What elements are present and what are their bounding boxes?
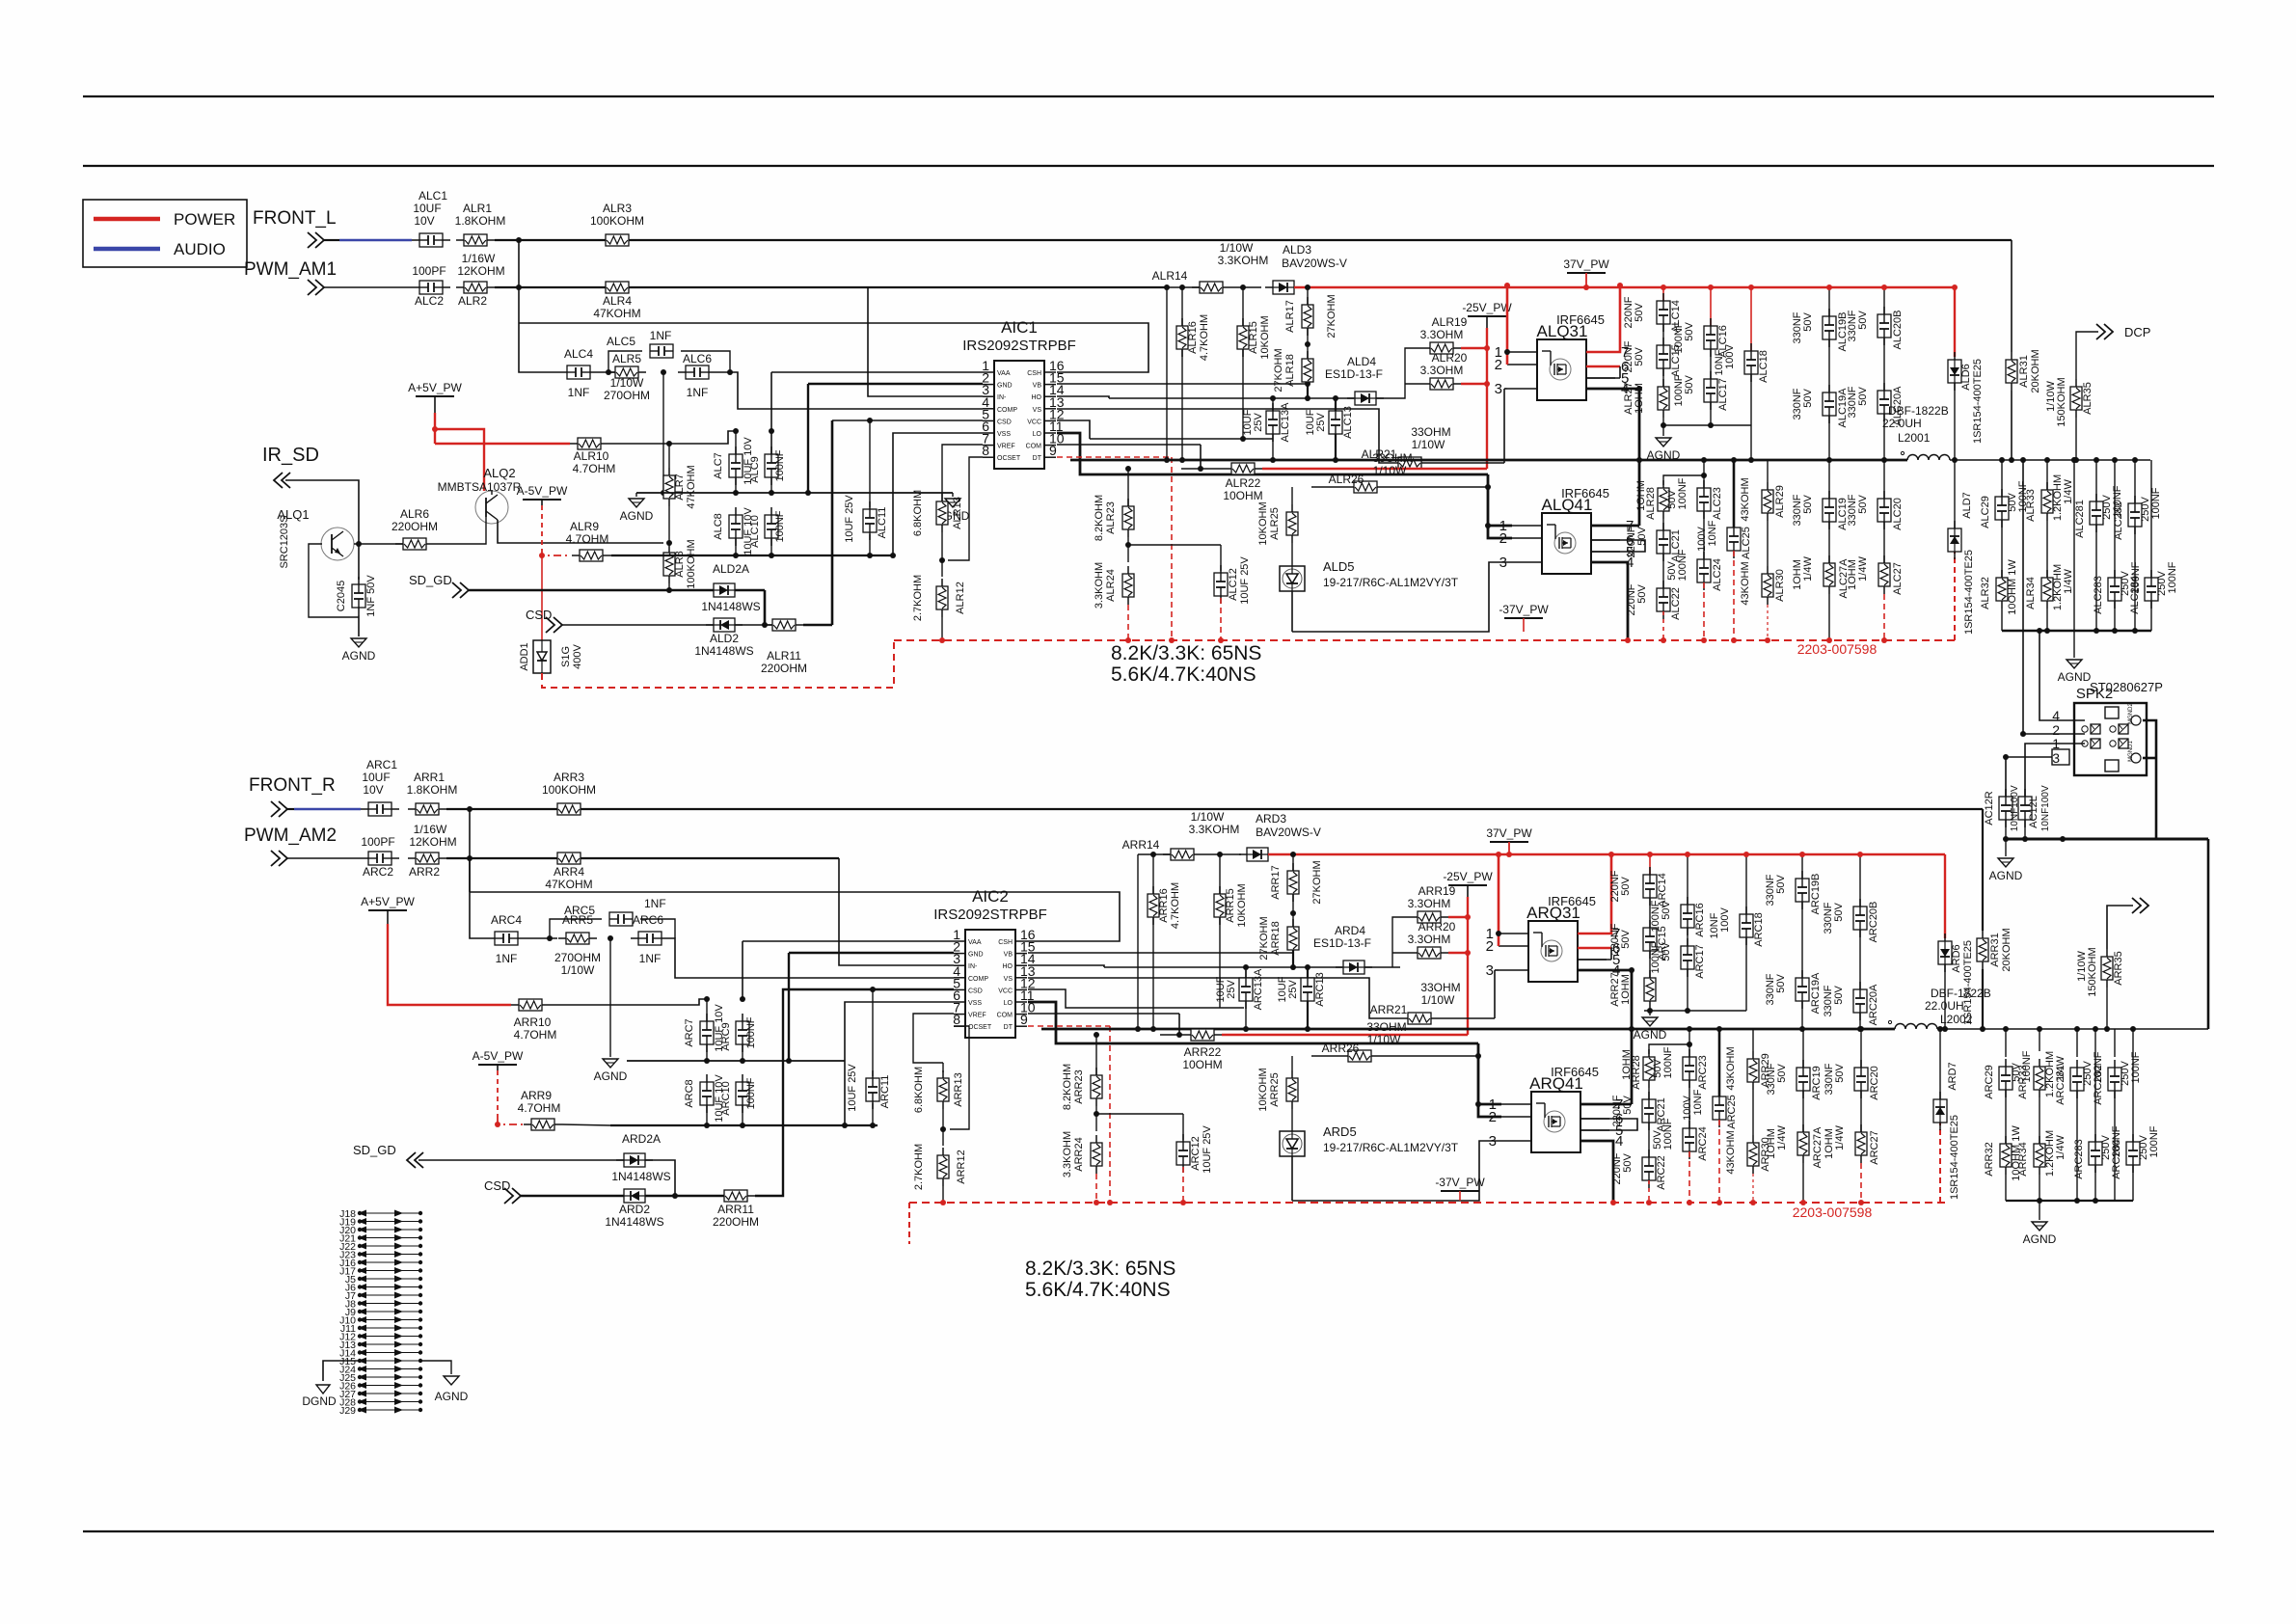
svg-text:OCSET: OCSET (968, 1024, 992, 1031)
svg-text:100KOHM: 100KOHM (590, 214, 644, 228)
cap column ARC16/ARC17 (1687, 854, 1688, 905)
wire AGND drop (662, 372, 664, 493)
svg-text:ALC27: ALC27 (1892, 562, 1904, 595)
svg-text:IN-: IN- (968, 963, 978, 970)
resistor ALR7 (663, 468, 675, 506)
svg-text:ALR19: ALR19 (1432, 315, 1468, 329)
pin J18 (339, 1208, 422, 1220)
svg-text:50V: 50V (1666, 561, 1678, 581)
svg-text:1/10W: 1/10W (561, 963, 595, 977)
svg-text:ALC23: ALC23 (1712, 487, 1723, 520)
svg-text:ALQ31: ALQ31 (1537, 322, 1588, 340)
svg-text:HO: HO (1003, 963, 1013, 970)
svg-text:33OHM: 33OHM (1420, 981, 1460, 994)
resistor ARR3 (550, 803, 588, 815)
resistor ARR2 (408, 853, 446, 864)
wire OCSET pin8 (950, 1026, 969, 1129)
svg-text:ALR30: ALR30 (1774, 569, 1786, 602)
svg-text:3: 3 (1495, 381, 1502, 397)
svg-text:2203-007598: 2203-007598 (1793, 1204, 1873, 1220)
wire mid bus (627, 1060, 845, 1062)
second border rule (83, 165, 2214, 167)
svg-text:ALC2: ALC2 (415, 294, 444, 308)
svg-text:AGND: AGND (594, 1069, 628, 1083)
svg-text:10OHM: 10OHM (1182, 1058, 1222, 1071)
svg-text:ARC19: ARC19 (1811, 1066, 1823, 1099)
resistor ARR28 (1643, 1049, 1655, 1088)
col ARC19/ARC27A (1802, 1029, 1804, 1068)
wire (1202, 853, 1241, 855)
wire (608, 431, 736, 444)
pin J5 (345, 1274, 422, 1286)
col ARR33/ARR34 (2039, 1029, 2040, 1051)
svg-text:3.3KOHM: 3.3KOHM (1189, 823, 1240, 836)
svg-text:8: 8 (982, 443, 989, 458)
svg-text:ARC22: ARC22 (1656, 1155, 1667, 1189)
svg-text:ALR24: ALR24 (1105, 569, 1117, 602)
svg-text:19-217/R6C-AL1M2VY/3T: 19-217/R6C-AL1M2VY/3T (1323, 1141, 1459, 1154)
resistor ALR31 (2006, 352, 2017, 391)
svg-text:100NF: 100NF (745, 1077, 757, 1109)
svg-text:ALC22: ALC22 (1670, 587, 1682, 620)
svg-text:10NF: 10NF (1707, 520, 1718, 546)
svg-text:LO: LO (1004, 1000, 1013, 1007)
svg-text:ALR11: ALR11 (767, 649, 801, 663)
capacitor ALC20B (1877, 307, 1891, 345)
svg-text:ALC12: ALC12 (1228, 568, 1239, 601)
svg-text:ARR2: ARR2 (409, 865, 440, 879)
svg-text:50V: 50V (1652, 1059, 1663, 1078)
svg-text:ALR32: ALR32 (1980, 577, 1991, 609)
wire to ALQ2 base (434, 543, 476, 545)
resistor ALR35 (2070, 379, 2082, 418)
svg-text:25V: 25V (1253, 413, 1264, 432)
svg-text:330NF: 330NF (1823, 985, 1834, 1016)
pin J15 (339, 1356, 422, 1367)
node DCP2 (2132, 898, 2148, 913)
wire ALC5 bypass (608, 351, 642, 372)
svg-text:1SR154-400TE25: 1SR154-400TE25 (1963, 550, 1975, 635)
svg-text:1N4148WS: 1N4148WS (605, 1215, 663, 1229)
col ARC20/ARC27 (1860, 1029, 1862, 1068)
resistor ALR10 (570, 438, 608, 449)
svg-text:ALR6: ALR6 (400, 507, 429, 521)
svg-text:1/16W: 1/16W (462, 252, 496, 265)
svg-text:VREF: VREF (968, 1013, 986, 1019)
svg-text:9: 9 (1020, 1012, 1028, 1027)
svg-text:ALC1: ALC1 (419, 189, 447, 203)
cap column ALC19B/ALC19A (1828, 287, 1830, 316)
svg-text:ARR32: ARR32 (1984, 1142, 1995, 1176)
power rail -25V_PW (1443, 870, 1493, 885)
wire (562, 1124, 610, 1125)
svg-text:5.6K/4.7K:40NS: 5.6K/4.7K:40NS (1111, 663, 1256, 686)
wire pins 1/2 ARQ41 (1478, 1043, 1501, 1117)
svg-text:MMBTSA1037R: MMBTSA1037R (438, 480, 522, 494)
transistor ARQ41 (IRF6645) (1489, 1065, 1624, 1152)
red dashed CSD bus (894, 639, 1958, 641)
capacitor ARC5 (609, 912, 633, 926)
svg-text:AGND: AGND (1634, 1028, 1667, 1042)
wire VAA pin1 (771, 371, 983, 373)
svg-text:100NF: 100NF (1673, 321, 1685, 353)
wire VCC pin12 (1057, 420, 1090, 439)
col ALC25 (1733, 460, 1736, 528)
svg-text:1/10W: 1/10W (1367, 1033, 1401, 1046)
svg-text:GND: GND (968, 952, 984, 959)
svg-text:VS: VS (1004, 976, 1013, 983)
capacitor ALC281 (2090, 494, 2103, 532)
cap column ALC16/ALC17 (1710, 287, 1712, 326)
wire PWM bus (495, 286, 1167, 288)
svg-text:22.0UH: 22.0UH (1882, 417, 1922, 430)
ground AGND (1989, 858, 2023, 882)
svg-text:ARC2: ARC2 (363, 865, 393, 879)
wire low bus (VSS) (611, 555, 893, 556)
svg-text:VCC: VCC (998, 988, 1013, 994)
capacitor ARC20B (1853, 899, 1867, 937)
svg-text:1NF: 1NF (687, 386, 709, 399)
svg-text:1NF: 1NF (496, 952, 518, 965)
resistor ALR20 (1422, 378, 1461, 390)
svg-text:ALR25: ALR25 (1269, 507, 1281, 540)
ground AGND-J (435, 1376, 469, 1403)
svg-text:1OHM: 1OHM (1766, 1128, 1777, 1159)
capacitor ALC2 (412, 281, 450, 294)
svg-text:ALR29: ALR29 (1774, 485, 1786, 518)
svg-text:150KOHM: 150KOHM (2087, 947, 2098, 996)
svg-text:ARC8: ARC8 (684, 1079, 695, 1107)
svg-text:AGND: AGND (1989, 869, 2023, 882)
svg-text:50V: 50V (1636, 527, 1648, 546)
svg-text:FRONT_R: FRONT_R (249, 775, 336, 796)
resistor ALR25 (1286, 504, 1298, 543)
svg-text:100NF: 100NF (1662, 1046, 1674, 1078)
wire VB pin15 (1028, 952, 1293, 954)
svg-text:A-5V_PW: A-5V_PW (517, 484, 568, 498)
capacitor ARC23 (1683, 1049, 1696, 1088)
svg-text:ARC13A: ARC13A (1253, 968, 1264, 1010)
svg-text:10KOHM: 10KOHM (1259, 315, 1271, 359)
svg-text:ALR33: ALR33 (2025, 489, 2037, 522)
svg-text:1NF: 1NF (639, 952, 662, 965)
red dashed right riser bottom (1939, 1123, 1941, 1203)
red dashed left riser bottom (908, 1203, 910, 1244)
svg-text:ARD2: ARD2 (619, 1203, 650, 1216)
resistor ALR26 (1346, 481, 1385, 493)
svg-text:AC12R: AC12R (1984, 791, 1995, 826)
wire gnd bus (636, 492, 953, 494)
svg-text:3: 3 (2052, 750, 2060, 766)
svg-text:ARR35: ARR35 (2113, 951, 2124, 985)
svg-text:50V: 50V (1622, 1153, 1634, 1173)
resistor ARR19 (1410, 911, 1448, 923)
resistor ARR9 (524, 1119, 562, 1130)
wire to ARC12 (1096, 1113, 1183, 1115)
diode ALD4 row (1109, 397, 1354, 399)
resistor ALR27 (1658, 379, 1669, 418)
svg-text:10KOHM: 10KOHM (1236, 883, 1248, 927)
wire to CSD pin (803, 624, 832, 627)
svg-text:S1G: S1G (560, 646, 572, 667)
wire (1364, 966, 1400, 968)
power rail A-5V_PW (517, 484, 568, 500)
wire (1291, 487, 1293, 504)
svg-text:SD_GD: SD_GD (409, 573, 452, 587)
svg-text:COM: COM (997, 1013, 1013, 1019)
wire (1459, 1191, 1461, 1201)
capacitor ARC14 (1643, 867, 1657, 906)
resistor ARR26 (1340, 1050, 1379, 1062)
resistor ALR9 (572, 550, 610, 561)
svg-text:AIC1: AIC1 (1001, 318, 1038, 337)
transistor ALQ1 (SRC1203S) (277, 507, 354, 569)
svg-text:330NF: 330NF (1792, 311, 1803, 343)
svg-text:100PF: 100PF (412, 264, 446, 278)
svg-text:AGND: AGND (435, 1390, 469, 1403)
svg-text:43KOHM: 43KOHM (1725, 1130, 1737, 1174)
wire pin3 (1504, 388, 1507, 390)
wire DGND (323, 1361, 358, 1381)
resistor ALR22 (1224, 463, 1262, 474)
svg-text:ALC284: ALC284 (2129, 576, 2141, 614)
svg-text:4.7OHM: 4.7OHM (573, 462, 616, 475)
svg-text:DT: DT (1033, 455, 1042, 462)
wire (1291, 1156, 1293, 1201)
resistor ALR15 (1237, 318, 1249, 357)
svg-text:1/4W: 1/4W (1776, 1125, 1788, 1150)
col ALC281/ALC283 (2095, 460, 2097, 501)
resistor ALR16 (1176, 318, 1188, 357)
svg-text:IRS2092STRPBF: IRS2092STRPBF (962, 338, 1076, 354)
svg-text:ARR26: ARR26 (1322, 1042, 1360, 1055)
svg-text:1/16W: 1/16W (414, 823, 447, 836)
svg-text:100V: 100V (1719, 907, 1731, 932)
wire FRONT_R bus (446, 808, 1983, 810)
resistor ARR5 (558, 933, 597, 944)
svg-text:ARR20: ARR20 (1418, 920, 1456, 934)
cap column ARC19B/ARC19A (1801, 854, 1803, 879)
resistor ALR13 (936, 494, 948, 532)
svg-text:POWER: POWER (174, 210, 235, 229)
wire GND pin2 (808, 383, 983, 385)
svg-text:12KOHM: 12KOHM (457, 264, 504, 278)
pin J10 (339, 1315, 422, 1327)
wire pins 1/2 ALQ41 (1488, 474, 1512, 538)
svg-text:ALQ41: ALQ41 (1542, 496, 1593, 514)
resistor ARR30 (1747, 1135, 1759, 1174)
transistor ALQ41 (IRF6645) (1499, 486, 1634, 574)
diode ARD7 (1933, 1092, 1947, 1130)
resistor ALR1 (456, 234, 495, 246)
svg-text:ALC18: ALC18 (1758, 350, 1769, 383)
svg-text:VSS: VSS (997, 431, 1011, 438)
resistor column ARR13/ARR12 (942, 1063, 944, 1072)
svg-text:AGND: AGND (1647, 448, 1681, 462)
svg-text:25V: 25V (1287, 980, 1299, 999)
diode ALD6 (1948, 352, 1961, 391)
wire (1291, 591, 1293, 632)
capacitor ARC19 (1796, 1060, 1810, 1098)
wire SD_GD (419, 1159, 624, 1161)
svg-text:ALR31: ALR31 (2018, 355, 2030, 388)
svg-text:1/4W: 1/4W (2063, 479, 2074, 504)
capacitor ALC18 (1744, 343, 1758, 382)
wire SPK right side (2143, 720, 2156, 839)
svg-text:ALD6: ALD6 (1960, 364, 1972, 391)
svg-text:ARR3: ARR3 (554, 771, 584, 784)
svg-text:3: 3 (1499, 555, 1507, 571)
capacitor ARC9 (736, 1014, 749, 1052)
svg-text:ALR13: ALR13 (952, 497, 963, 529)
svg-text:ALR15: ALR15 (1248, 321, 1259, 354)
resistor ARR12 (937, 1148, 949, 1186)
wire VAA pin1 (743, 940, 954, 942)
capacitor ALC24 (1697, 552, 1711, 590)
svg-text:COMP: COMP (997, 407, 1017, 414)
diode ALD7 (1954, 460, 1956, 528)
power rail A+5V_PW (361, 895, 415, 910)
svg-text:ES1D-13-F: ES1D-13-F (1325, 367, 1383, 381)
wire power red (434, 413, 436, 444)
svg-text:ARR31: ARR31 (1989, 933, 2001, 966)
resistor ARR29 (1747, 1051, 1759, 1090)
resistor ARR1 (408, 803, 446, 815)
svg-text:VS: VS (1033, 407, 1042, 414)
svg-text:C2045: C2045 (336, 581, 347, 611)
svg-text:5.6K/4.7K:40NS: 5.6K/4.7K:40NS (1025, 1279, 1171, 1301)
capacitor ALC12 (1220, 545, 1222, 571)
wire mid bus VS (1041, 1028, 1895, 1031)
capacitor ARC13 (1301, 970, 1314, 1009)
svg-text:4.7KOHM: 4.7KOHM (1199, 314, 1210, 361)
svg-text:ARR1: ARR1 (414, 771, 445, 784)
svg-text:3.3OHM: 3.3OHM (1420, 328, 1464, 341)
diode ALD2 (706, 618, 743, 632)
svg-text:VREF: VREF (997, 444, 1015, 450)
wire A-5V dashes (497, 1065, 499, 1070)
svg-text:330NF: 330NF (1765, 973, 1776, 1005)
cap column ARC14/ARC15/ARR27 (1649, 854, 1651, 875)
svg-text:ARR12: ARR12 (956, 1150, 967, 1183)
svg-text:VAA: VAA (968, 939, 982, 946)
svg-text:1OHM: 1OHM (1634, 383, 1645, 414)
svg-text:ALC10: ALC10 (749, 515, 761, 548)
resistor ALR28 (1658, 480, 1669, 519)
svg-text:ALC283: ALC283 (2093, 576, 2104, 614)
svg-text:330NF: 330NF (1847, 310, 1858, 341)
svg-text:ADD1: ADD1 (519, 642, 530, 670)
wire pin4 output (1578, 969, 1632, 972)
wire (1181, 468, 1224, 470)
svg-text:100PF: 100PF (361, 835, 394, 849)
capacitor ALC282 (2128, 496, 2142, 534)
svg-text:ARR21: ARR21 (1370, 1003, 1408, 1016)
wire (610, 555, 678, 556)
svg-text:50V: 50V (1661, 901, 1672, 920)
pin J8 (345, 1299, 422, 1311)
capacitor ARC22 (1642, 1150, 1656, 1188)
wire (1376, 348, 1422, 398)
svg-text:ARD2A: ARD2A (622, 1132, 661, 1146)
svg-text:ARR18: ARR18 (1270, 921, 1282, 955)
svg-text:1/10W: 1/10W (1191, 810, 1225, 824)
capacitor ARC25 (1713, 1089, 1726, 1127)
resistor ALR32 (1996, 570, 2008, 609)
svg-text:220OHM: 220OHM (713, 1215, 759, 1229)
diode column ARD6 (1944, 854, 1946, 938)
svg-text:3.3KOHM: 3.3KOHM (1062, 1131, 1073, 1177)
pin J6 (345, 1283, 422, 1294)
wire VS pin13 (1057, 409, 1391, 463)
svg-text:100NF: 100NF (774, 449, 786, 481)
svg-text:1/10W: 1/10W (1373, 464, 1407, 477)
svg-text:1N4148WS: 1N4148WS (611, 1170, 670, 1183)
capacitor ARC4 (487, 932, 526, 945)
svg-text:ARD5: ARD5 (1323, 1124, 1357, 1139)
svg-text:AGND: AGND (2023, 1232, 2057, 1246)
svg-text:ALC5: ALC5 (607, 335, 635, 348)
capacitor ALC13 (1329, 403, 1342, 442)
svg-text:20KOHM: 20KOHM (2030, 349, 2041, 392)
wire (2107, 906, 2133, 949)
capacitor ALC16 (1704, 318, 1717, 357)
svg-text:100V: 100V (1696, 526, 1708, 551)
svg-text:100NF: 100NF (2130, 1051, 2142, 1083)
wire 37V red bus (1268, 853, 1945, 856)
ground AGND (1634, 1017, 1667, 1042)
svg-text:ARR16: ARR16 (1158, 888, 1170, 922)
capacitor ARC10 (736, 1074, 749, 1113)
wire PWM_AM1 (324, 286, 412, 288)
capacitor ARC16 (1681, 897, 1694, 935)
svg-text:50V: 50V (1620, 877, 1632, 896)
wire pin4 down (1591, 562, 1628, 640)
wire LO pin11 heavy (1057, 433, 1488, 474)
svg-text:ARC19A: ARC19A (1810, 972, 1822, 1014)
svg-text:ARR9: ARR9 (521, 1089, 552, 1102)
resistor ALR30 (1762, 566, 1773, 605)
svg-text:220OHM: 220OHM (392, 520, 438, 533)
wire (550, 999, 707, 1005)
svg-text:ALC20: ALC20 (1892, 498, 1904, 530)
ground AGND (342, 638, 376, 663)
svg-text:100NF: 100NF (1673, 374, 1685, 406)
wire low bus VSS (610, 1124, 878, 1126)
svg-text:22.0UH: 22.0UH (1925, 999, 1964, 1013)
svg-text:ARR10: ARR10 (514, 1015, 552, 1029)
wire red (388, 924, 511, 1005)
svg-text:A+5V_PW: A+5V_PW (408, 381, 462, 394)
wire red from ARR22 (1222, 1034, 1468, 1036)
svg-text:50V: 50V (1684, 375, 1695, 394)
feedback resistor ALR31 (2011, 240, 2012, 352)
svg-text:ALR2: ALR2 (458, 294, 487, 308)
col ALC19/ALC27A (1828, 460, 1830, 499)
wire (788, 953, 790, 1061)
svg-text:MGND2: MGND2 (2128, 703, 2134, 724)
capacitor ARC11 (872, 989, 874, 1076)
capacitor ARC20A (1853, 982, 1867, 1020)
svg-text:2: 2 (1495, 357, 1502, 373)
capacitor ALC12 (1214, 565, 1228, 604)
svg-text:ALC24: ALC24 (1712, 558, 1723, 591)
power rail 37V_PW (1486, 826, 1532, 842)
svg-text:LO: LO (1033, 431, 1042, 438)
svg-text:AGND: AGND (620, 509, 654, 523)
svg-text:50V: 50V (1636, 584, 1648, 604)
svg-text:ARR33: ARR33 (2017, 1065, 2029, 1098)
